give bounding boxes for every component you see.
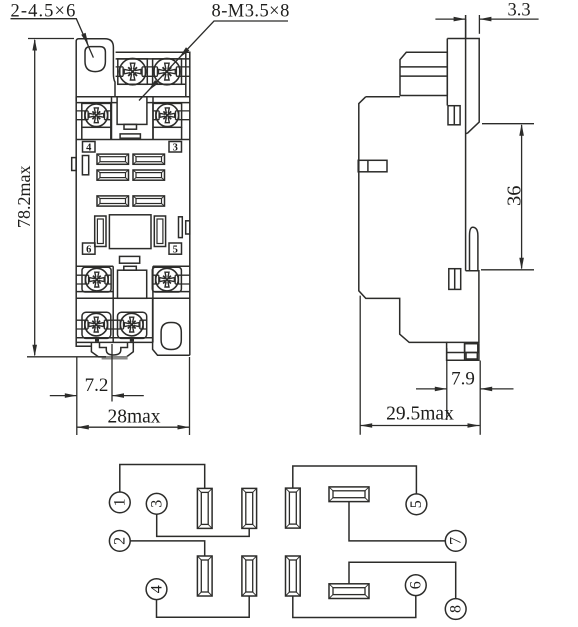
- screw terminal row4 center: [117, 313, 146, 336]
- dim 3.3 extension right: [478, 15, 480, 34]
- pin 5 circle: [406, 494, 427, 515]
- pin 4 circle: [146, 579, 167, 600]
- front view body left edge: [76, 97, 91, 346]
- bottom right tab slot: [161, 323, 181, 350]
- screw terminal 1 row1 left: [118, 58, 148, 84]
- side view din hook block: [447, 39, 479, 134]
- svg-text:78.2max: 78.2max: [14, 166, 34, 229]
- terminal number box 6: [83, 243, 96, 254]
- leader arrowhead at tab slot: [81, 33, 88, 46]
- svg-text:6: 6: [86, 245, 91, 256]
- right edge latch tab: [186, 221, 190, 234]
- left edge latch tab: [72, 158, 76, 171]
- dim 78.2max arrow up: [32, 39, 37, 51]
- contact slot row2 left: [97, 170, 129, 180]
- dim 78.2max line: [34, 40, 36, 355]
- wire pin2 to bar C: [130, 541, 205, 556]
- front view mounting tab outline: [76, 39, 115, 101]
- contact bar B top right vertical: [242, 488, 257, 528]
- contact slot row1 left: [97, 154, 129, 164]
- svg-text:4: 4: [148, 585, 165, 593]
- front view horizontal line y=139.5: [76, 139, 190, 141]
- pin 2 circle: [109, 531, 130, 552]
- svg-text:36: 36: [504, 186, 526, 207]
- dim 3.3 arrow right: [479, 17, 491, 22]
- screw cell row3 right: [152, 267, 181, 292]
- dim 28max line: [77, 426, 190, 428]
- coil column right vertical: [152, 97, 154, 140]
- screw terminal 3 row2 right: [153, 104, 182, 127]
- dim 29.5max arrow right: [468, 423, 480, 428]
- side view hook left edge: [446, 39, 448, 106]
- dim 28max arrow right: [178, 425, 190, 430]
- side view hook window: [448, 106, 460, 125]
- clamp band margin extensions row2: [76, 111, 190, 120]
- small slot above bottom block: [120, 256, 140, 263]
- bottom coil column verticals: [113, 266, 153, 342]
- tiny terminal mark right: [130, 339, 134, 342]
- side view top clip block: [400, 52, 447, 95]
- vertical contact slot right: [154, 216, 165, 247]
- screw cell row1 left: [118, 59, 148, 84]
- terminal number box 4: [83, 142, 96, 153]
- dim 7.9 extension right: [479, 361, 481, 435]
- side view body top edge: [366, 96, 400, 98]
- dim 7.9 line left: [416, 388, 447, 390]
- svg-text:8: 8: [448, 605, 465, 613]
- right inner slot: [179, 217, 183, 238]
- dim 7.9 arrow left: [435, 387, 447, 392]
- screw cell row3 left: [82, 267, 111, 292]
- side view lower tongue: [470, 227, 478, 270]
- contact slot row3 right: [133, 196, 165, 206]
- coil column left vertical: [111, 97, 113, 140]
- wire bar H to pin8: [349, 562, 456, 598]
- side view clip block line1: [400, 66, 447, 68]
- svg-text:4: 4: [86, 143, 92, 154]
- pin 8 circle: [445, 599, 466, 620]
- contact bar D bottom right vertical: [242, 556, 257, 596]
- terminal number box 3: [169, 142, 182, 153]
- front view horizontal line y=298.3: [76, 297, 190, 299]
- mounting slot 4.5x6 in tab: [85, 47, 105, 72]
- dim 36 arrow down: [519, 258, 524, 270]
- contact bar E right section top vertical: [286, 488, 301, 528]
- row2 left cell side extensions: [82, 127, 111, 139]
- contact bar H right section bottom horizontal: [329, 584, 369, 599]
- screw terminal 4 row2 left: [82, 104, 111, 127]
- front view horizontal line y=266.3 left: [76, 265, 113, 267]
- dim 78.2max extension bottom: [27, 356, 106, 358]
- contact slot row2 right: [133, 170, 165, 180]
- pin 6 circle: [405, 575, 426, 596]
- bottom foot dark pad: [102, 356, 128, 359]
- wire bar G to pin7: [349, 502, 445, 541]
- dim 7.2 line right part: [112, 395, 144, 397]
- side view pin detail lower: [466, 353, 477, 360]
- left inner slot: [82, 156, 88, 175]
- leader arrowhead at coil: [148, 80, 159, 91]
- dim 3.3 arrow left: [454, 17, 466, 22]
- screw terminal 2 row1 right: [152, 58, 182, 84]
- leader arrowhead at screw: [179, 47, 190, 58]
- svg-text:6: 6: [408, 581, 425, 589]
- wire bar F to pin6: [293, 596, 416, 618]
- contact bar F right section bottom vertical: [286, 556, 301, 596]
- side view clip tip bottom: [466, 132, 468, 134]
- dim 7.2 extension right: [111, 344, 113, 402]
- screw cell row1 right: [153, 59, 182, 84]
- dim 29.5max arrow left: [360, 423, 372, 428]
- front view horizontal line y=96.8: [76, 96, 190, 98]
- dim 29.5max extension left: [359, 296, 361, 435]
- dim 7.2 extension left: [76, 357, 78, 435]
- bottom coil block: [118, 270, 147, 298]
- side view clip block bottom: [400, 95, 448, 97]
- label 8-M3.5x8 underline and leader: [139, 21, 288, 101]
- pin 3 circle: [146, 493, 167, 514]
- vertical contact slot left: [95, 216, 106, 247]
- side view latch divider: [367, 160, 369, 172]
- bottom foot outline: [91, 342, 133, 357]
- dim 7.9 arrow right: [480, 387, 492, 392]
- label 2-4.5x6 underline and leader: [11, 19, 94, 58]
- svg-text:7.2: 7.2: [85, 375, 109, 396]
- front view horizontal line y=102.6 left: [76, 102, 117, 104]
- svg-text:29.5max: 29.5max: [386, 404, 454, 425]
- front view horizontal line y=337.8: [76, 337, 153, 339]
- bottom foot inner notch: [100, 342, 128, 355]
- terminal number box 5: [169, 243, 182, 254]
- svg-text:3: 3: [173, 143, 178, 154]
- front view horizontal line y=342.4: [76, 341, 153, 343]
- svg-text:7: 7: [448, 537, 465, 545]
- side view pin block inner vertical: [464, 342, 466, 360]
- dim 36 extension top: [482, 123, 534, 125]
- side view lower clip window: [449, 269, 461, 290]
- side view pin bottom line: [447, 352, 465, 354]
- dim 78.2max extension top: [28, 38, 74, 40]
- row2 right cell side extensions: [153, 127, 182, 139]
- contact bar G right section top horizontal: [329, 487, 369, 502]
- right margin line top block: [185, 52, 187, 97]
- coil block window: [117, 97, 147, 125]
- svg-text:7.9: 7.9: [451, 369, 475, 390]
- svg-text:1: 1: [112, 498, 129, 506]
- side view clip block line2: [400, 75, 448, 77]
- dim 36 extension bottom: [481, 269, 534, 271]
- side view latch rect: [358, 160, 387, 172]
- side view step at tongue base: [466, 271, 479, 343]
- dim 28max arrow left: [77, 425, 89, 430]
- contact slot row3 left: [97, 196, 129, 206]
- screw cell row4 center: [118, 312, 147, 338]
- pin 7 circle: [445, 531, 466, 552]
- screw cell row4 left: [82, 312, 111, 338]
- front view horizontal line y=291.6 left: [76, 291, 113, 293]
- clamp band margin extensions row4: [76, 320, 117, 329]
- side view hook window divider: [453, 106, 455, 125]
- svg-text:28max: 28max: [107, 407, 160, 428]
- dim 78.2max arrow down: [32, 345, 37, 357]
- dim 3.3 extension left: [465, 19, 467, 39]
- dim 3.3 line right: [479, 18, 538, 20]
- screw cell row2 left: [82, 103, 111, 127]
- small slot under coil: [120, 134, 140, 138]
- contact bar C bottom left vertical: [197, 556, 212, 596]
- side view body left edge with chamfer: [359, 97, 479, 361]
- screw terminal 7 row3 right: [153, 268, 182, 291]
- wire bar E to pin5: [293, 466, 417, 494]
- front view body right edge: [116, 52, 190, 355]
- dim 7.9 line right: [480, 388, 513, 390]
- svg-text:3.3: 3.3: [507, 1, 530, 21]
- svg-text:5: 5: [173, 245, 178, 256]
- bottom right tab: [153, 298, 190, 355]
- pin 1 circle: [109, 492, 130, 513]
- side view pin detail rect: [465, 344, 478, 353]
- clamp band margin extensions row3: [76, 275, 190, 284]
- dim 7.2 arrow left: [65, 393, 77, 398]
- screw terminal row4 left: [82, 313, 111, 336]
- clamp band margin extensions row1: [116, 67, 190, 76]
- coil block lower tab: [124, 124, 137, 129]
- contact slot row1 right: [133, 154, 165, 164]
- dim 7.9 extension left: [446, 348, 448, 420]
- dim 36 arrow up: [519, 124, 524, 136]
- wire pin3 to bar B: [157, 514, 250, 536]
- wire pin4 to bar D: [157, 596, 250, 617]
- front view horizontal line y=291.6 right: [153, 291, 190, 293]
- bottom coil notch: [124, 266, 137, 270]
- dim 29.5max line: [360, 425, 479, 427]
- dim 7.2 line left part: [50, 395, 77, 397]
- tiny terminal mark left: [95, 339, 99, 342]
- svg-text:8-M3.5×8: 8-M3.5×8: [212, 2, 290, 22]
- dim 28max extension right: [189, 357, 191, 435]
- dim 36 line: [521, 125, 523, 269]
- dim 7.2 arrow right: [112, 393, 124, 398]
- side view pin block top line: [447, 341, 479, 343]
- front view horizontal line y=102.6 right: [147, 102, 190, 104]
- front view horizontal line y=266.3 right: [153, 265, 190, 267]
- side view lower clip window divider: [454, 269, 456, 290]
- svg-text:3: 3: [149, 500, 166, 508]
- top screw block inner top line: [116, 58, 190, 60]
- svg-text:2: 2: [112, 537, 129, 545]
- screw terminal 8 row3 left: [82, 268, 111, 291]
- contact bar A top left vertical: [197, 488, 212, 528]
- dim 3.3 line left: [435, 18, 465, 20]
- relay window center square: [109, 215, 151, 249]
- bottom body edge left: [76, 345, 91, 347]
- top screw block inner bottom line: [118, 83, 186, 85]
- side view right edge main: [465, 15, 467, 271]
- wire pin1 to bar A: [120, 465, 205, 493]
- svg-text:5: 5: [408, 500, 425, 508]
- screw cell row2 right: [153, 103, 182, 127]
